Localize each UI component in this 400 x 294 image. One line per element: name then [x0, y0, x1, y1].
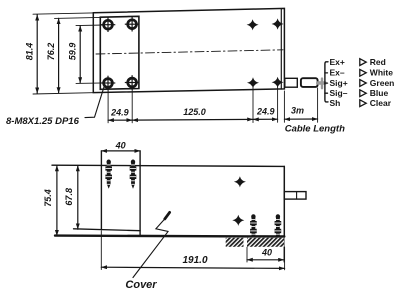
- svg-text:76.2: 76.2: [46, 43, 56, 61]
- svg-text:8-M8X1.25 DP16: 8-M8X1.25 DP16: [6, 116, 80, 127]
- svg-text:Cable Length: Cable Length: [285, 124, 345, 135]
- svg-text:Ex+: Ex+: [330, 57, 345, 67]
- svg-text:24.9: 24.9: [110, 107, 129, 117]
- svg-text:Green: Green: [370, 78, 395, 88]
- svg-text:3m: 3m: [291, 105, 304, 115]
- svg-text:Ex–: Ex–: [330, 68, 345, 78]
- svg-text:Sh: Sh: [330, 98, 341, 108]
- svg-text:Sig–: Sig–: [330, 88, 348, 98]
- svg-text:67.8: 67.8: [64, 188, 74, 206]
- svg-text:59.9: 59.9: [68, 43, 78, 61]
- svg-text:24.9: 24.9: [256, 106, 275, 116]
- svg-text:40: 40: [261, 248, 272, 258]
- svg-text:81.4: 81.4: [25, 43, 35, 61]
- svg-text:White: White: [370, 68, 393, 78]
- svg-text:Sig+: Sig+: [330, 78, 348, 88]
- svg-text:Blue: Blue: [370, 88, 389, 98]
- svg-text:Cover: Cover: [125, 279, 157, 291]
- svg-text:40: 40: [115, 140, 126, 150]
- svg-text:75.4: 75.4: [43, 189, 53, 207]
- svg-text:Red: Red: [370, 57, 386, 67]
- svg-text:Clear: Clear: [370, 98, 392, 108]
- svg-text:125.0: 125.0: [183, 107, 206, 117]
- svg-text:191.0: 191.0: [182, 255, 207, 266]
